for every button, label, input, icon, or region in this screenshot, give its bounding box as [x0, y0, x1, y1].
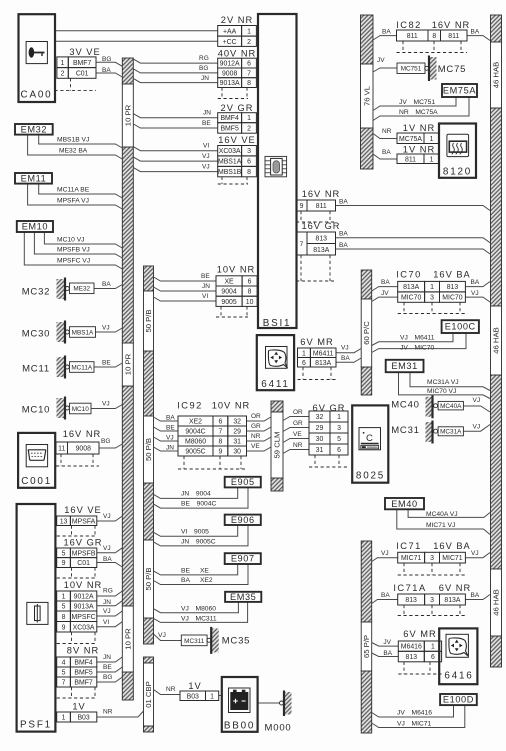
wire GR from 59CLM to 8025 pin 3	[283, 428, 309, 432]
svg-text:M6416: M6416	[401, 644, 422, 651]
svg-text:1: 1	[210, 693, 214, 700]
svg-text:9012A: 9012A	[220, 61, 240, 68]
svg-text:5: 5	[62, 670, 66, 677]
svg-text:32: 32	[233, 419, 241, 426]
svg-text:NR: NR	[103, 709, 113, 716]
svg-text:MC40A: MC40A	[440, 403, 462, 410]
svg-text:1: 1	[337, 414, 341, 421]
svg-text:16V GR: 16V GR	[301, 221, 340, 231]
component CA00 ignition switch	[19, 14, 56, 102]
svg-text:8: 8	[62, 614, 66, 621]
svg-text:46 HAB: 46 HAB	[492, 327, 501, 354]
wire JN 9013A PSF1 to 10PR	[97, 601, 123, 606]
wire VJ MIC71 IC71 to 65PP	[372, 558, 398, 562]
svg-text:MC40: MC40	[391, 400, 420, 411]
svg-text:MIC71: MIC71	[401, 555, 421, 562]
wire RG 9012A from 10PR to BSI1 pin 6	[133, 59, 217, 63]
svg-text:9013A: 9013A	[220, 80, 240, 87]
wire BA IC82 left to 76VL	[373, 36, 397, 40]
svg-text:10V NR: 10V NR	[212, 401, 251, 411]
svg-text:6V NR: 6V NR	[439, 583, 471, 593]
svg-text:811: 811	[405, 156, 416, 163]
svg-text:7: 7	[218, 429, 222, 436]
svg-text:10 PR: 10 PR	[124, 104, 133, 126]
wire BG 9008 from 10PR to BSI1 pin 7	[133, 69, 217, 73]
svg-text:6V MR: 6V MR	[403, 629, 436, 639]
svg-text:8: 8	[432, 33, 436, 40]
wire BE 9004C IC92 to 50PB	[154, 427, 179, 431]
wire VJ M6411 from E100C to 60PC	[372, 333, 453, 346]
svg-text:JV: JV	[377, 57, 385, 64]
svg-text:EM31: EM31	[391, 361, 417, 371]
svg-text:E907: E907	[231, 554, 255, 564]
wire BE 9004C from E905 to 50PB	[154, 487, 249, 508]
svg-text:BA: BA	[339, 242, 348, 249]
svg-text:BSI1: BSI1	[263, 318, 292, 329]
wire ME32 BA from EM32 to 10PR	[28, 135, 123, 159]
svg-text:BA: BA	[103, 556, 112, 563]
splice E907	[225, 553, 261, 564]
svg-text:7: 7	[300, 241, 304, 248]
svg-text:1: 1	[430, 136, 434, 143]
svg-text:3V VE: 3V VE	[69, 47, 100, 57]
svg-text:1V: 1V	[188, 681, 201, 691]
svg-text:8120: 8120	[443, 167, 472, 178]
wire VJ MPSFC PSF1 to 10PR	[97, 611, 123, 616]
wire MBS1B VJ from EM32 to 10PR	[39, 135, 123, 148]
wire BA 813 from 6416 to 65PP	[372, 653, 399, 657]
ground MC10	[22, 397, 91, 420]
svg-text:E906: E906	[231, 515, 255, 525]
splice EM11	[15, 173, 52, 184]
wire MC40A VJ from EM40 to 46HAB	[408, 509, 490, 517]
svg-text:8025: 8025	[356, 471, 385, 482]
svg-text:4: 4	[62, 660, 66, 667]
svg-text:813A: 813A	[403, 284, 419, 291]
ground MC11	[22, 356, 94, 379]
svg-text:JN: JN	[103, 654, 111, 661]
wire NR from 59CLM to 8025 pin 6	[283, 450, 309, 454]
svg-text:M6411: M6411	[313, 350, 334, 357]
svg-text:BMF7: BMF7	[73, 60, 92, 67]
svg-text:BG: BG	[102, 56, 111, 63]
svg-text:MIC70: MIC70	[442, 295, 462, 302]
svg-text:JN: JN	[103, 599, 111, 606]
svg-text:BA: BA	[382, 29, 391, 36]
svg-text:VJ: VJ	[473, 424, 481, 431]
svg-text:VJ MIC71: VJ MIC71	[397, 721, 431, 728]
wire BG from C001 9008 to 10PR	[99, 444, 122, 448]
svg-text:813: 813	[405, 597, 417, 604]
component PSF1 fuse box	[17, 504, 56, 732]
wire BE BMF5 PSF1 to 10PR	[97, 667, 123, 672]
splice EM35	[225, 592, 261, 602]
svg-text:6: 6	[337, 447, 341, 454]
wire BE from MC11A ground to 10PR	[94, 363, 122, 367]
svg-text:EM11: EM11	[21, 173, 47, 183]
component BB00 battery	[222, 677, 258, 732]
ground MC75	[397, 56, 466, 82]
svg-text:B03: B03	[187, 693, 199, 700]
wire BA C01 PSF1 to 10PR	[97, 563, 123, 568]
svg-text:VJ: VJ	[473, 397, 481, 404]
svg-text:MPSFB: MPSFB	[72, 550, 96, 557]
svg-text:6416: 6416	[444, 671, 473, 682]
svg-text:2V NR: 2V NR	[221, 15, 253, 25]
svg-text:6411: 6411	[261, 379, 289, 390]
wire MIC70 VJ from EM31 to 46HAB	[399, 372, 491, 399]
svg-text:VI: VI	[203, 143, 209, 150]
svg-text:16V VE: 16V VE	[64, 505, 102, 515]
component 6416 control unit	[439, 628, 477, 684]
wire VJ MC311 from EM35 to 50PB	[154, 602, 248, 623]
svg-text:JV MIC70: JV MIC70	[400, 345, 434, 352]
svg-text:VJ: VJ	[202, 153, 210, 160]
svg-text:813: 813	[316, 235, 328, 242]
svg-text:VI: VI	[103, 619, 109, 626]
svg-text:PSF1: PSF1	[20, 720, 52, 731]
svg-text:JV MC751: JV MC751	[399, 99, 435, 106]
wire-bundle bar 01 CBP	[144, 657, 154, 732]
svg-text:10V NR: 10V NR	[217, 265, 256, 275]
wire NR 31 IC92 to 59CLM	[247, 437, 272, 441]
svg-text:9: 9	[62, 624, 66, 631]
wire VJ MC40A ground to 46HAB	[463, 406, 490, 412]
svg-text:29: 29	[316, 425, 324, 432]
svg-text:XE: XE	[224, 278, 234, 285]
svg-text:JN: JN	[203, 110, 211, 117]
wire-bundle bar 10 PR	[122, 58, 133, 700]
svg-text:BA XE2: BA XE2	[181, 577, 213, 584]
svg-text:GR: GR	[251, 423, 261, 430]
wire VI 9005 from E906 to 50PB	[154, 525, 238, 536]
svg-text:VJ: VJ	[158, 632, 166, 639]
svg-text:BA: BA	[382, 149, 391, 156]
svg-text:BA: BA	[102, 281, 111, 288]
svg-text:VI: VI	[202, 293, 208, 300]
wire BA 811 from BSI1 to 46HAB	[336, 206, 491, 211]
svg-text:3: 3	[247, 148, 251, 155]
svg-text:BMF4: BMF4	[220, 115, 239, 122]
svg-text:BA: BA	[381, 592, 390, 599]
svg-text:EM40: EM40	[391, 499, 417, 509]
svg-text:C01: C01	[76, 70, 89, 77]
wire +AA from CA00 to BSI1 pin 1	[55, 30, 218, 32]
svg-text:1: 1	[302, 350, 306, 357]
svg-text:16V NR: 16V NR	[63, 429, 102, 439]
wire BA 813A IC70 to 60PC	[372, 287, 398, 291]
svg-text:811: 811	[407, 33, 418, 40]
svg-text:JV: JV	[383, 639, 391, 646]
wire VJ from MBS1A ground to 10PR	[96, 328, 123, 332]
svg-text:29: 29	[233, 429, 241, 436]
svg-text:MIC70: MIC70	[401, 295, 421, 302]
component BSI1 body control unit	[258, 14, 297, 329]
svg-text:MC35: MC35	[222, 636, 251, 647]
svg-text:OR: OR	[251, 413, 261, 420]
svg-text:76 VL: 76 VL	[362, 85, 371, 106]
svg-text:BA: BA	[339, 199, 348, 206]
svg-text:C01: C01	[77, 560, 90, 567]
wire VJ MPSFA PSF1 to 10PR	[97, 516, 123, 521]
wire MC31A VJ from EM31 to 46HAB	[410, 372, 490, 391]
svg-text:IC71A: IC71A	[393, 583, 426, 593]
svg-text:1: 1	[430, 284, 434, 291]
wire MIC71 VJ from EM40 to 46HAB	[397, 509, 490, 534]
svg-text:JN 9004: JN 9004	[181, 491, 211, 498]
svg-text:ME32 BA: ME32 BA	[59, 148, 88, 155]
svg-text:1: 1	[431, 644, 435, 651]
ground MC30	[22, 321, 96, 344]
wire MC10 VJ from EM10 to 10PR	[44, 232, 122, 248]
svg-text:1: 1	[247, 28, 251, 35]
svg-text:B03: B03	[77, 715, 89, 722]
svg-text:MC10 VJ: MC10 VJ	[57, 237, 85, 244]
svg-text:JN 9005C: JN 9005C	[181, 539, 216, 546]
svg-text:5: 5	[62, 604, 66, 611]
svg-text:BG: BG	[199, 65, 208, 72]
wire-bundle bar 59 CLM	[271, 401, 283, 491]
wire VJ M6411 from 6411 to 60PC	[336, 349, 361, 353]
wire VJ MBS1B from 10PR to BSI1 16V VE pin 8	[133, 168, 217, 172]
svg-text:MBS1A: MBS1A	[72, 329, 94, 336]
svg-text:NR: NR	[251, 433, 261, 440]
svg-text:16V VE: 16V VE	[218, 135, 256, 145]
svg-text:8: 8	[247, 169, 251, 176]
svg-text:MC11: MC11	[22, 364, 50, 375]
svg-text:2V GR: 2V GR	[221, 103, 254, 113]
svg-text:IC92: IC92	[177, 401, 203, 411]
svg-text:XE2: XE2	[189, 419, 202, 426]
svg-text:9005C: 9005C	[185, 449, 205, 456]
svg-text:MC10: MC10	[72, 406, 89, 413]
wire JV from 76VL to MC751 ground	[373, 68, 397, 72]
wire VI XC03A from 10PR to BSI1 16V VE pin 3	[133, 147, 217, 151]
svg-text:9: 9	[300, 203, 304, 210]
svg-text:NR: NR	[293, 442, 303, 449]
svg-text:2: 2	[61, 70, 65, 77]
svg-text:31: 31	[316, 447, 324, 454]
svg-text:XC03A: XC03A	[73, 624, 95, 631]
wire JV M6416 from 6416 to 65PP	[372, 643, 399, 647]
svg-text:VE: VE	[251, 443, 260, 450]
wire VJ from 50PB to MC311 ground	[154, 634, 182, 641]
svg-text:9005: 9005	[221, 299, 236, 306]
svg-text:30: 30	[233, 449, 241, 456]
wire BE XE from E907 to 50PB	[154, 564, 238, 575]
wire NR from 01CBP to battery B03	[154, 690, 181, 695]
svg-text:813A: 813A	[444, 597, 460, 604]
svg-text:VJ: VJ	[103, 608, 111, 615]
wire VE from 59CLM to 8025 pin 5	[283, 439, 309, 443]
svg-text:BA: BA	[102, 67, 111, 74]
svg-text:VJ: VJ	[202, 164, 210, 171]
svg-text:BA: BA	[471, 29, 480, 36]
svg-text:C: C	[366, 433, 373, 444]
svg-text:1: 1	[62, 715, 66, 722]
ground MC40	[391, 395, 463, 418]
svg-text:16V NR: 16V NR	[302, 189, 341, 199]
component 6411 control unit	[257, 335, 294, 390]
svg-text:MC30: MC30	[22, 329, 51, 340]
svg-text:JN: JN	[166, 445, 174, 452]
svg-text:XC03A: XC03A	[219, 148, 241, 155]
wire BA 813A from BSI1 to 46HAB	[336, 249, 491, 254]
svg-text:RG: RG	[103, 588, 113, 595]
wire VI 9005 from 50PB to BSI1 pin 10	[154, 297, 217, 301]
svg-text:VJ: VJ	[103, 545, 111, 552]
wire MPSFC VJ from EM10 to 10PR	[24, 232, 122, 269]
svg-text:BG: BG	[103, 674, 112, 681]
wire-bundle bar 46 HAB	[491, 15, 502, 667]
wire OR from 59CLM to 8025 pin 1	[283, 417, 309, 421]
wire MC11A BE from EM11 to 10PR	[39, 184, 123, 198]
svg-text:16V NR: 16V NR	[432, 20, 471, 30]
svg-text:3: 3	[430, 295, 434, 302]
ground MC31	[391, 421, 463, 444]
svg-text:MPSFC VJ: MPSFC VJ	[57, 258, 90, 265]
wire JV MIC70 IC70 to 60PC	[372, 297, 398, 301]
svg-text:BE: BE	[201, 273, 210, 280]
svg-text:MBS1B VJ: MBS1B VJ	[57, 137, 89, 144]
svg-text:13: 13	[60, 518, 68, 525]
svg-text:8: 8	[218, 439, 222, 446]
svg-text:1: 1	[62, 594, 66, 601]
wire JN BMF4 from 10PR to BSI1 2V GR pin 1	[133, 114, 217, 118]
svg-text:1: 1	[247, 115, 251, 122]
wire JV MC751 from EM75A to 76VL	[373, 97, 456, 111]
wire VJ from MC10 ground to 10PR	[91, 405, 122, 409]
wire NR from 76VL to MC75A pin 1 of 8120	[373, 134, 397, 139]
wire BE BMF5 from 10PR to BSI1 2V GR pin 2	[133, 124, 217, 128]
svg-text:16V BA: 16V BA	[433, 270, 471, 280]
svg-text:10 PR: 10 PR	[124, 353, 133, 375]
svg-text:31: 31	[233, 439, 241, 446]
splice EM75A	[442, 84, 477, 97]
svg-text:BE XE: BE XE	[181, 567, 209, 574]
splice EM40	[385, 498, 424, 509]
svg-text:VJ: VJ	[471, 290, 479, 297]
svg-text:8: 8	[247, 80, 251, 87]
wire JN 9004 from 50PB to BSI1 pin 8	[154, 287, 217, 291]
wire JN 9013A from 10PR to BSI1 pin 8	[133, 79, 217, 83]
svg-text:BA: BA	[381, 279, 390, 286]
svg-text:VE: VE	[293, 431, 302, 438]
svg-text:MBS1A: MBS1A	[218, 159, 242, 166]
svg-text:BE: BE	[166, 425, 175, 432]
svg-text:65 P/P: 65 P/P	[362, 635, 371, 658]
svg-text:NR: NR	[382, 128, 392, 135]
svg-text:11: 11	[58, 446, 65, 453]
svg-text:1: 1	[430, 156, 434, 163]
svg-text:6: 6	[247, 159, 251, 166]
svg-text:7: 7	[247, 70, 251, 77]
wire JN 9005C from E906 to 50PB	[154, 525, 249, 546]
svg-text:MC75A: MC75A	[399, 136, 422, 143]
svg-text:30: 30	[316, 436, 324, 443]
svg-text:1V NR: 1V NR	[403, 145, 435, 155]
svg-text:BE 9004C: BE 9004C	[181, 501, 216, 508]
splice EM31	[386, 360, 424, 372]
svg-text:BA: BA	[339, 231, 348, 238]
svg-text:OR: OR	[293, 409, 303, 416]
component 8120 heated rear window relay	[439, 124, 476, 178]
wire BA 813A IC71A to 46HAB	[465, 595, 490, 600]
splice E100D	[440, 694, 477, 705]
svg-text:BB00: BB00	[224, 721, 255, 732]
svg-text:NR: NR	[166, 686, 176, 693]
svg-text:BA: BA	[166, 415, 175, 422]
svg-text:10V NR: 10V NR	[64, 580, 103, 590]
wire VI XC03A PSF1 to 10PR	[97, 622, 123, 627]
svg-text:EM35: EM35	[230, 592, 256, 602]
wire NR B03 PSF1 to 01CBP	[97, 711, 144, 717]
wire BA 813A from 6411 to 60PC	[336, 358, 361, 362]
wire B03 connector to BB00	[219, 695, 222, 697]
svg-text:59 CLM: 59 CLM	[273, 432, 282, 459]
svg-text:VJ M6411: VJ M6411	[400, 335, 435, 342]
svg-text:VJ: VJ	[341, 345, 349, 352]
svg-text:BE: BE	[202, 120, 211, 127]
wire MPSFB VJ from EM10 to 10PR	[34, 232, 122, 258]
svg-text:10: 10	[246, 299, 254, 306]
svg-text:50 P/B: 50 P/B	[144, 567, 153, 590]
svg-text:3: 3	[430, 597, 434, 604]
svg-text:BA: BA	[471, 279, 480, 286]
svg-text:2: 2	[247, 125, 251, 132]
svg-text:BA: BA	[341, 355, 350, 362]
svg-text:MC31: MC31	[391, 425, 420, 436]
wire-bundle bar 65 P/P	[361, 541, 372, 733]
svg-text:MC32: MC32	[22, 287, 51, 298]
splice E905	[225, 477, 261, 488]
splice EM32	[15, 124, 53, 135]
svg-text:9008: 9008	[76, 446, 91, 453]
svg-text:813A: 813A	[313, 247, 329, 254]
svg-text:MIC71: MIC71	[442, 555, 462, 562]
svg-text:MC31A VJ: MC31A VJ	[427, 379, 459, 386]
svg-text:46 HAB: 46 HAB	[492, 62, 501, 89]
wire VJ M8060 from EM35 to 50PB	[154, 602, 239, 613]
svg-text:9012A: 9012A	[74, 594, 94, 601]
svg-text:9: 9	[218, 449, 222, 456]
svg-text:VJ MC311: VJ MC311	[181, 615, 217, 622]
svg-text:6: 6	[247, 61, 251, 68]
svg-text:IC71: IC71	[396, 541, 422, 551]
svg-text:MPSFB VJ: MPSFB VJ	[57, 247, 90, 254]
ground MC35	[181, 627, 250, 654]
svg-text:1V NR: 1V NR	[403, 123, 435, 133]
svg-text:9008: 9008	[222, 70, 237, 77]
svg-text:50 P/B: 50 P/B	[144, 309, 153, 332]
svg-text:BG: BG	[101, 438, 110, 445]
svg-text:6: 6	[302, 360, 306, 367]
svg-text:MC751: MC751	[401, 66, 422, 73]
svg-text:5: 5	[337, 436, 341, 443]
svg-text:VJ: VJ	[103, 513, 111, 520]
wire BE XE from 50PB to BSI1 pin 6	[154, 277, 217, 281]
wire BA from 76VL to 811 pin 1 of 8120	[373, 154, 397, 159]
svg-text:CA00: CA00	[21, 90, 53, 101]
svg-text:JN: JN	[202, 283, 210, 290]
wire VE 30 IC92 to 59CLM	[247, 447, 272, 451]
svg-text:BMF5: BMF5	[220, 125, 239, 132]
svg-text:BMF7: BMF7	[74, 680, 93, 687]
wire VJ MIC70 IC70 to 46HAB	[465, 297, 490, 302]
svg-text:MC311: MC311	[184, 638, 205, 645]
wire-bundle bar 76 VL	[361, 15, 374, 169]
svg-text:46 HAB: 46 HAB	[492, 589, 501, 616]
